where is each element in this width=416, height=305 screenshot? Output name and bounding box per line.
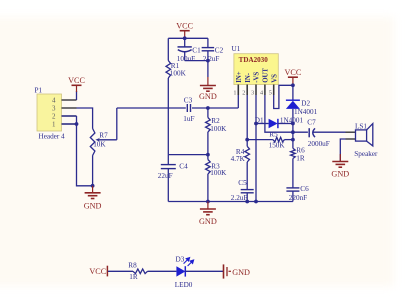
svg-text:C6: C6 <box>300 185 309 193</box>
svg-text:OUT: OUT <box>263 68 270 83</box>
svg-text:VCC: VCC <box>89 267 106 276</box>
svg-text:Speaker: Speaker <box>354 150 378 158</box>
svg-text:VCC: VCC <box>284 68 301 77</box>
svg-text:LED0: LED0 <box>175 281 193 289</box>
svg-text:VCC: VCC <box>68 76 85 85</box>
svg-text:GND: GND <box>199 217 217 226</box>
svg-text:3: 3 <box>251 90 254 97</box>
svg-text:C2: C2 <box>215 47 224 55</box>
svg-text:100uF: 100uF <box>177 55 195 63</box>
svg-text:P1: P1 <box>35 87 43 95</box>
svg-text:100K: 100K <box>210 169 227 177</box>
svg-text:C3: C3 <box>184 97 193 105</box>
svg-text:GND: GND <box>232 268 250 277</box>
svg-text:1R: 1R <box>129 273 138 281</box>
svg-text:TDA2030: TDA2030 <box>239 56 269 64</box>
svg-text:2.2uF: 2.2uF <box>231 194 248 202</box>
svg-text:100K: 100K <box>170 70 187 78</box>
svg-text:4: 4 <box>260 90 263 97</box>
svg-text:1N4001: 1N4001 <box>294 108 318 116</box>
svg-text:2: 2 <box>52 113 56 121</box>
svg-text:C1: C1 <box>192 47 201 55</box>
svg-text:R2: R2 <box>211 117 220 125</box>
svg-text:150K: 150K <box>269 141 286 149</box>
svg-text:1R: 1R <box>296 155 305 163</box>
svg-text:GND: GND <box>331 169 349 178</box>
svg-text:IN-: IN- <box>245 72 252 83</box>
svg-text:3: 3 <box>52 105 56 113</box>
svg-text:1N4001: 1N4001 <box>280 116 304 124</box>
svg-text:C5: C5 <box>238 179 247 187</box>
svg-text:1: 1 <box>233 90 236 97</box>
svg-text:R6: R6 <box>296 146 305 154</box>
svg-text:Header 4: Header 4 <box>39 133 66 141</box>
svg-text:R8: R8 <box>128 262 137 270</box>
svg-text:C4: C4 <box>179 162 188 170</box>
svg-text:22uF: 22uF <box>158 172 173 180</box>
svg-text:D3: D3 <box>176 256 185 264</box>
svg-text:VS: VS <box>271 74 278 83</box>
svg-text:C7: C7 <box>307 119 316 127</box>
svg-text:220nF: 220nF <box>289 194 307 202</box>
svg-text:VCC: VCC <box>176 22 193 31</box>
svg-text:2000uF: 2000uF <box>308 140 330 148</box>
svg-text:R7: R7 <box>99 132 108 140</box>
svg-text:2: 2 <box>242 90 245 97</box>
svg-text:D1: D1 <box>255 116 264 124</box>
svg-text:5: 5 <box>269 90 272 97</box>
svg-text:GND: GND <box>84 201 102 210</box>
svg-text:IN+: IN+ <box>236 71 243 83</box>
svg-text:GND: GND <box>199 92 217 101</box>
svg-text:10K: 10K <box>93 141 106 149</box>
svg-text:U1: U1 <box>232 45 241 53</box>
svg-text:100K: 100K <box>210 125 227 133</box>
svg-text:2.2uF: 2.2uF <box>203 55 220 63</box>
svg-text:1uF: 1uF <box>183 115 194 123</box>
svg-text:1: 1 <box>52 121 56 129</box>
svg-text:-VS: -VS <box>254 72 261 83</box>
svg-text:4: 4 <box>52 97 56 105</box>
svg-text:4.7K: 4.7K <box>231 155 246 163</box>
svg-text:D2: D2 <box>301 100 310 108</box>
svg-text:LS1: LS1 <box>355 123 367 131</box>
